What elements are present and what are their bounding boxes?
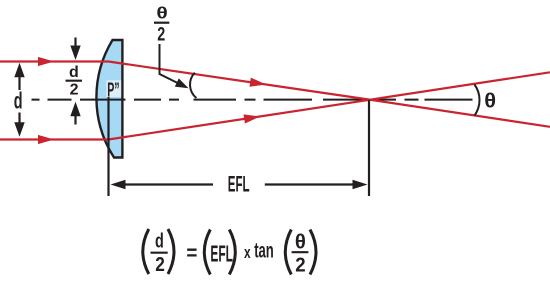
svg-text:2: 2 [157, 24, 165, 46]
svg-text:2: 2 [155, 254, 165, 276]
svg-text:=: = [186, 242, 197, 265]
svg-text:d: d [14, 88, 23, 114]
svg-text:2: 2 [295, 254, 305, 276]
svg-text:θ: θ [156, 4, 167, 23]
svg-text:EFL: EFL [228, 171, 250, 196]
svg-text:x: x [244, 243, 251, 262]
svg-text:2: 2 [70, 82, 79, 99]
svg-text:d: d [69, 64, 79, 81]
svg-text:P”: P” [107, 79, 119, 102]
svg-text:θ: θ [295, 232, 306, 254]
svg-text:θ: θ [484, 90, 496, 112]
svg-text:d: d [155, 231, 164, 253]
svg-text:EFL: EFL [210, 241, 233, 267]
svg-text:tan: tan [254, 238, 274, 262]
